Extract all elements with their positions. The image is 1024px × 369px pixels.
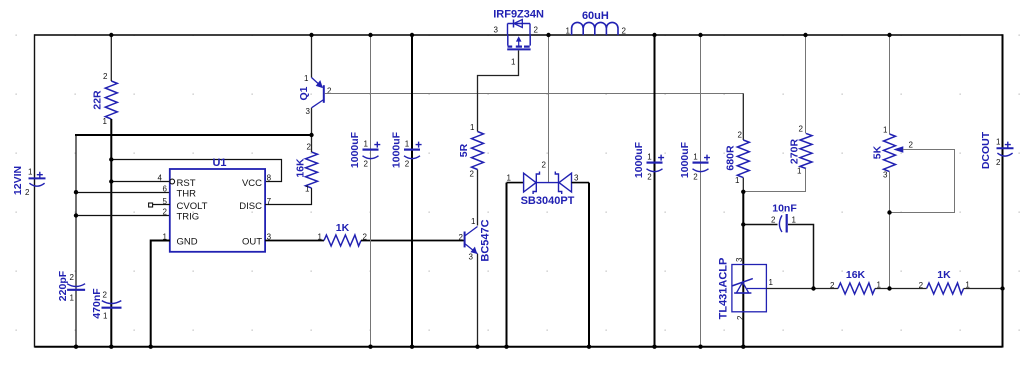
svg-text:1: 1 [470, 123, 475, 132]
node dot TRIG tap [74, 213, 78, 217]
wire 680R node down to TL431 [742, 192, 744, 347]
potentiometer R9 5K [872, 35, 955, 289]
svg-text:1: 1 [792, 216, 797, 225]
svg-text:5K: 5K [872, 145, 884, 159]
svg-text:2: 2 [738, 131, 743, 140]
svg-text:2: 2 [25, 188, 30, 197]
node dot Q1 top [309, 33, 313, 37]
svg-text:TRIG: TRIG [177, 211, 200, 222]
svg-text:1: 1 [566, 27, 571, 36]
resistor R3 1K (at OUT) [318, 222, 368, 246]
wire left rail 12VIN [34, 34, 36, 347]
capacitor C4 1000uF [391, 35, 422, 347]
svg-text:2: 2 [459, 233, 464, 242]
svg-text:220pF: 220pF [57, 270, 69, 301]
node dot 5K top [887, 33, 891, 37]
svg-text:2: 2 [405, 160, 410, 169]
node dot gnd C4 [410, 345, 414, 349]
node dot drain/diode [546, 33, 550, 37]
svg-text:TL431ACLP: TL431ACLP [718, 258, 730, 320]
node dot Q1 emitter node [309, 133, 313, 137]
svg-text:DCOUT: DCOUT [980, 131, 992, 169]
gate plate [507, 48, 530, 50]
svg-text:2: 2 [996, 158, 1001, 167]
node dot 680R/270R [741, 190, 745, 194]
connector J1 12VIN [12, 166, 46, 197]
resistor R6 270R [743, 35, 812, 192]
svg-text:2: 2 [542, 161, 547, 170]
svg-text:2: 2 [327, 87, 332, 96]
svg-text:1000uF: 1000uF [679, 141, 691, 178]
svg-text:3: 3 [735, 257, 744, 262]
svg-text:THR: THR [177, 188, 197, 199]
wire THR connection from node A column [76, 192, 170, 194]
wire thick link node A to Q1 emitter [75, 134, 312, 136]
svg-text:2: 2 [534, 26, 539, 35]
node dot 16K/1K junction [887, 286, 891, 290]
svg-text:1: 1 [996, 138, 1001, 147]
svg-text:1: 1 [647, 153, 652, 162]
capacitor C5 1000uF [633, 35, 664, 347]
svg-text:1: 1 [693, 153, 698, 162]
node dot C4 top [410, 33, 414, 37]
ref line [747, 288, 766, 290]
capacitor C7 10nF [743, 203, 813, 289]
svg-text:2: 2 [693, 173, 698, 182]
wire VCC connection (111,159)-(281,159)-(281,182)-VCC pin [111, 160, 281, 182]
wire SB3040PT common cathode column [548, 35, 550, 183]
diode D1 SB3040PT dual schottky [507, 172, 590, 208]
svg-text:2: 2 [909, 141, 914, 150]
node dot gnd BC547C [475, 345, 479, 349]
node dot 270R top [803, 33, 807, 37]
svg-text:1: 1 [735, 176, 740, 185]
svg-text:CVOLT: CVOLT [177, 201, 208, 212]
svg-text:2: 2 [919, 281, 924, 290]
node dot gnd 470nF [109, 345, 113, 349]
svg-text:2: 2 [736, 315, 745, 320]
svg-text:1: 1 [471, 217, 476, 226]
svg-text:2: 2 [470, 170, 475, 179]
svg-text:1: 1 [883, 126, 888, 135]
svg-text:1: 1 [769, 278, 774, 287]
wire DISC to 16K bottom [265, 188, 311, 205]
svg-text:1K: 1K [937, 269, 951, 281]
svg-text:RST: RST [177, 178, 196, 189]
wire 1K to DCOUT rail [964, 288, 1003, 290]
wire SB3040PT anode 1 to ground [506, 183, 508, 347]
wire 22R top lead [110, 35, 112, 81]
svg-text:3: 3 [306, 107, 311, 116]
wire BC547C emitter to ground [477, 254, 479, 347]
wire top rail [35, 34, 1003, 36]
wire right rail DCOUT [1002, 34, 1004, 347]
svg-text:1000uF: 1000uF [633, 141, 645, 178]
node dot C6 top [698, 33, 702, 37]
inductor L1 60uH [566, 10, 627, 36]
node dot gnd C5 [652, 345, 656, 349]
svg-text:BC547C: BC547C [479, 219, 491, 261]
svg-text:1: 1 [28, 168, 33, 177]
svg-text:1: 1 [70, 294, 75, 303]
resistor R5 680R [725, 93, 750, 192]
transistor Q1 PNP [298, 35, 332, 135]
connector J2 DCOUT [980, 131, 1014, 169]
transistor Q2 BC547C NPN [459, 217, 492, 262]
channel contacts [507, 35, 509, 46]
wire SB3040PT anode 3 to ground [588, 183, 590, 347]
wire 22R bottom to VCC node column [110, 119, 112, 347]
svg-text:GND: GND [177, 237, 198, 248]
zener cathode bar with tick [732, 279, 753, 286]
svg-text:1: 1 [103, 117, 108, 126]
svg-text:2: 2 [163, 208, 168, 217]
wire TRIG connection from node A column [76, 215, 170, 217]
svg-text:2: 2 [830, 281, 835, 290]
svg-text:3: 3 [469, 253, 474, 262]
wire OUT to 1K [265, 240, 324, 242]
node dot DCOUT rail [1000, 286, 1004, 290]
resistor R7 16K [830, 269, 882, 294]
svg-text:16K: 16K [846, 269, 866, 281]
wire Q1 base to 680R [325, 93, 744, 95]
svg-text:Q1: Q1 [298, 86, 310, 100]
svg-text:60uH: 60uH [582, 10, 609, 22]
svg-text:680R: 680R [725, 145, 737, 171]
svg-text:DISC: DISC [239, 201, 262, 212]
svg-text:1: 1 [405, 140, 410, 149]
node dot gnd D1 pin1 [504, 345, 508, 349]
node dot 10nF tap [741, 222, 745, 226]
svg-text:1: 1 [304, 74, 309, 83]
svg-text:IRF9Z34N: IRF9Z34N [493, 9, 544, 21]
node dot THR tap [74, 190, 78, 194]
svg-text:1: 1 [364, 140, 369, 149]
zener triangle [736, 282, 748, 293]
wire GND pin to ground rail [151, 241, 170, 347]
body arrow [518, 39, 520, 46]
wire BC547C collector up to 5R [477, 170, 479, 226]
wire 1K to BC547C base [361, 240, 465, 242]
transistor U2 IRF9Z34N P-MOSFET [493, 9, 544, 50]
svg-text:2: 2 [647, 173, 652, 182]
svg-text:1: 1 [507, 174, 512, 183]
svg-text:1000uF: 1000uF [391, 131, 403, 168]
pin 5 CVOLT stub with open square [149, 203, 170, 207]
svg-text:U1: U1 [212, 157, 226, 169]
node dot gnd C6 [698, 345, 702, 349]
svg-text:6: 6 [163, 185, 168, 194]
capacitor C2 470nF [91, 288, 122, 321]
wire TL431 ref to 16K [766, 288, 838, 290]
wire 16K top to Q1 node [311, 135, 313, 152]
svg-text:10nF: 10nF [772, 203, 797, 215]
svg-text:1: 1 [797, 167, 802, 176]
svg-text:270R: 270R [789, 139, 801, 165]
svg-text:4: 4 [158, 174, 163, 183]
wire MOSFET gate to 5R [478, 50, 519, 131]
node dot C5 top [652, 33, 656, 37]
svg-text:3: 3 [574, 174, 579, 183]
wire RST connection [111, 181, 170, 183]
svg-text:OUT: OUT [242, 237, 262, 248]
IC U3 TL431ACLP [718, 257, 774, 320]
svg-text:2: 2 [799, 125, 804, 134]
capacitor C1 220pF [57, 270, 85, 302]
resistor R2 16K (left, at Q1) [295, 143, 318, 194]
wire node A column (Q1 emitter node down through 220pF) [75, 135, 77, 347]
node dot gnd TL431 [741, 345, 745, 349]
svg-text:VCC: VCC [242, 178, 262, 189]
node dot 5K wiper loop [887, 210, 891, 214]
svg-text:1: 1 [103, 312, 108, 321]
wire bottom rail (ground return) [35, 346, 1003, 348]
svg-text:2: 2 [364, 160, 369, 169]
svg-text:1: 1 [318, 233, 323, 242]
node dot TL431 ref junction [811, 286, 815, 290]
svg-text:1000uF: 1000uF [349, 131, 361, 168]
node dot VCC node [109, 157, 113, 161]
svg-text:2: 2 [103, 72, 108, 81]
node dot RST node [109, 179, 113, 183]
svg-text:22R: 22R [92, 90, 104, 110]
svg-text:2: 2 [103, 291, 108, 300]
svg-text:16K: 16K [295, 158, 307, 178]
resistor R8 1K [919, 269, 971, 294]
node dot gnd D1 pin3 [587, 345, 591, 349]
svg-text:12VIN: 12VIN [12, 166, 24, 195]
svg-text:1K: 1K [336, 222, 350, 234]
pin 4 RST inversion bubble [170, 179, 175, 184]
svg-text:1: 1 [511, 58, 516, 67]
node dot C3 top [368, 33, 372, 37]
wire 16K to 1K [875, 288, 927, 290]
node dot 22R top [109, 33, 113, 37]
node dot gnd C3 [368, 345, 372, 349]
svg-text:470nF: 470nF [91, 288, 103, 319]
svg-text:2: 2 [70, 273, 75, 282]
resistor R1 22R [92, 72, 118, 126]
capacitor C3 1000uF [349, 35, 380, 347]
zener anode bar [734, 292, 751, 294]
svg-text:2: 2 [307, 143, 312, 152]
node dot gnd 220pF [74, 345, 78, 349]
svg-text:3: 3 [883, 171, 888, 180]
svg-text:2: 2 [622, 27, 627, 36]
svg-text:1: 1 [305, 185, 310, 194]
svg-text:SB3040PT: SB3040PT [521, 195, 575, 207]
svg-text:8: 8 [267, 174, 272, 183]
body diode [513, 20, 515, 28]
node dot gnd U1 [149, 345, 153, 349]
svg-text:5R: 5R [458, 143, 470, 157]
capacitor C6 1000uF [679, 35, 710, 347]
IC U1 555 timer box [158, 157, 272, 252]
svg-text:3: 3 [494, 26, 499, 35]
svg-text:2: 2 [771, 216, 776, 225]
resistor R4 5R [458, 123, 484, 179]
